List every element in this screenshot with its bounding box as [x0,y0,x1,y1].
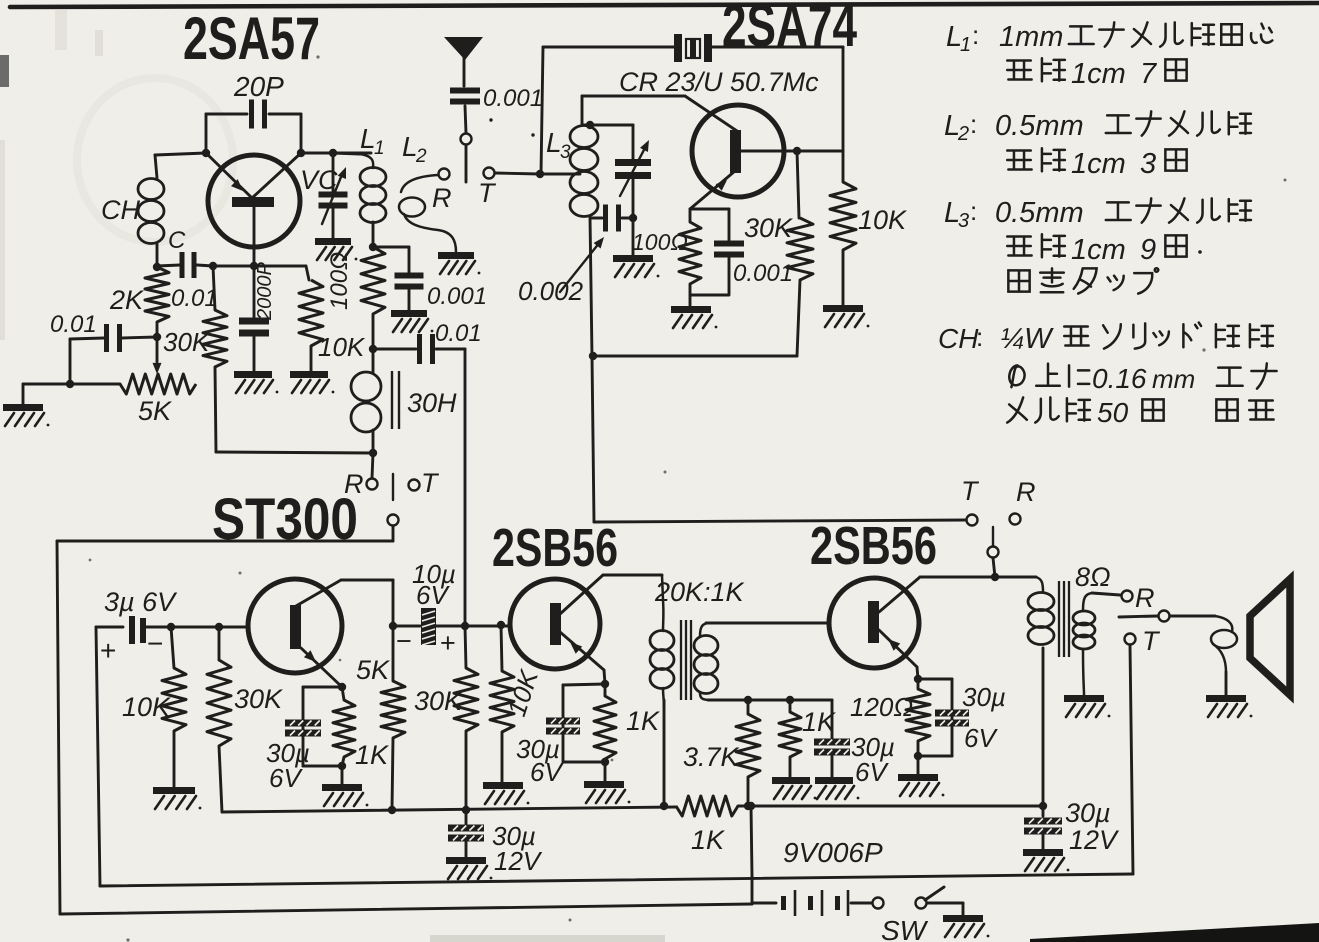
svg-text:2SB56: 2SB56 [810,516,937,576]
svg-text:10K: 10K [122,692,171,722]
svg-text:20P: 20P [233,71,284,102]
svg-text:3µ 6V: 3µ 6V [104,587,178,617]
svg-text:6V: 6V [855,757,889,787]
svg-text:10K: 10K [318,332,366,362]
svg-text:0.002: 0.002 [518,276,584,306]
svg-text:30µ: 30µ [962,682,1006,712]
svg-text:2000P: 2000P [254,262,276,321]
svg-text:CH: CH [938,323,979,354]
svg-text:0.01: 0.01 [171,285,218,312]
svg-text:1cm: 1cm [1071,234,1126,266]
svg-text:CH: CH [101,195,140,225]
svg-text::: : [970,196,977,226]
svg-text:100Ω: 100Ω [632,229,688,255]
svg-text:R: R [344,469,364,499]
svg-text:T: T [478,178,497,208]
svg-text:1cm: 1cm [1071,148,1126,180]
svg-text:+: + [440,628,456,658]
svg-text:30K: 30K [234,684,283,714]
svg-text:CR 23/U 50.7Mc: CR 23/U 50.7Mc [619,67,819,97]
svg-text:1K: 1K [626,706,660,736]
svg-text:0.001: 0.001 [483,85,543,112]
svg-text:1mm: 1mm [999,21,1063,53]
svg-text::: : [970,109,977,139]
svg-text::: : [976,322,983,352]
svg-text::: : [972,20,979,50]
svg-text:2SB56: 2SB56 [492,518,618,578]
svg-text:6V: 6V [269,763,303,793]
svg-text:1cm: 1cm [1071,58,1126,90]
svg-text:30K: 30K [744,213,793,243]
svg-text:3.7K: 3.7K [683,742,740,772]
svg-text:30H: 30H [407,388,457,418]
svg-text:7: 7 [1140,58,1158,90]
svg-text:6V: 6V [530,757,564,787]
svg-text:100Ω: 100Ω [326,252,353,310]
svg-text:0.5mm: 0.5mm [995,110,1084,142]
svg-text:0.5mm: 0.5mm [995,197,1084,229]
svg-text:12V: 12V [1069,825,1120,855]
svg-text:3: 3 [958,210,969,232]
svg-text:0.001: 0.001 [733,260,793,287]
svg-text:C: C [168,227,186,254]
svg-text:2: 2 [415,146,427,167]
svg-text:2: 2 [957,123,969,145]
svg-text:1K: 1K [355,740,389,770]
svg-text:T: T [421,468,440,498]
svg-text:−: − [147,628,163,659]
svg-text:30K: 30K [414,686,463,716]
svg-text:5K: 5K [356,655,390,685]
svg-text:2SA74: 2SA74 [722,0,857,59]
svg-text:6V: 6V [964,723,998,753]
svg-text:+: + [100,635,116,666]
svg-text:2SA57: 2SA57 [183,5,320,72]
svg-text:5K: 5K [138,396,172,426]
svg-text:2K: 2K [109,285,144,315]
svg-text:12V: 12V [494,846,543,876]
svg-text:mm: mm [1152,364,1195,394]
svg-text:0.01: 0.01 [50,311,97,338]
svg-text:T: T [1142,626,1161,656]
svg-text:1: 1 [374,138,385,159]
svg-text:10K: 10K [858,205,907,235]
svg-text:20K:1K: 20K:1K [654,577,745,607]
svg-text:T: T [961,476,980,506]
svg-text:8Ω: 8Ω [1075,562,1111,592]
svg-text:0.16: 0.16 [1092,363,1147,394]
svg-text:30µ: 30µ [1065,798,1111,828]
svg-text:9V006P: 9V006P [783,837,883,868]
svg-text:SW: SW [881,915,929,942]
svg-text:120Ω: 120Ω [850,692,913,722]
svg-text:−: − [396,626,412,656]
svg-text:9: 9 [1140,234,1156,266]
svg-text:3: 3 [1140,148,1156,180]
svg-text:R: R [1135,583,1155,613]
svg-text:0.01: 0.01 [435,320,482,347]
svg-text:¼W: ¼W [1000,323,1054,355]
svg-text:6V: 6V [416,580,450,610]
svg-text:50: 50 [1097,397,1129,428]
svg-text:1: 1 [960,34,971,56]
svg-text:R: R [1016,477,1036,507]
svg-text:0.001: 0.001 [427,283,487,310]
svg-text:R: R [432,183,452,213]
svg-text:1K: 1K [691,825,725,855]
